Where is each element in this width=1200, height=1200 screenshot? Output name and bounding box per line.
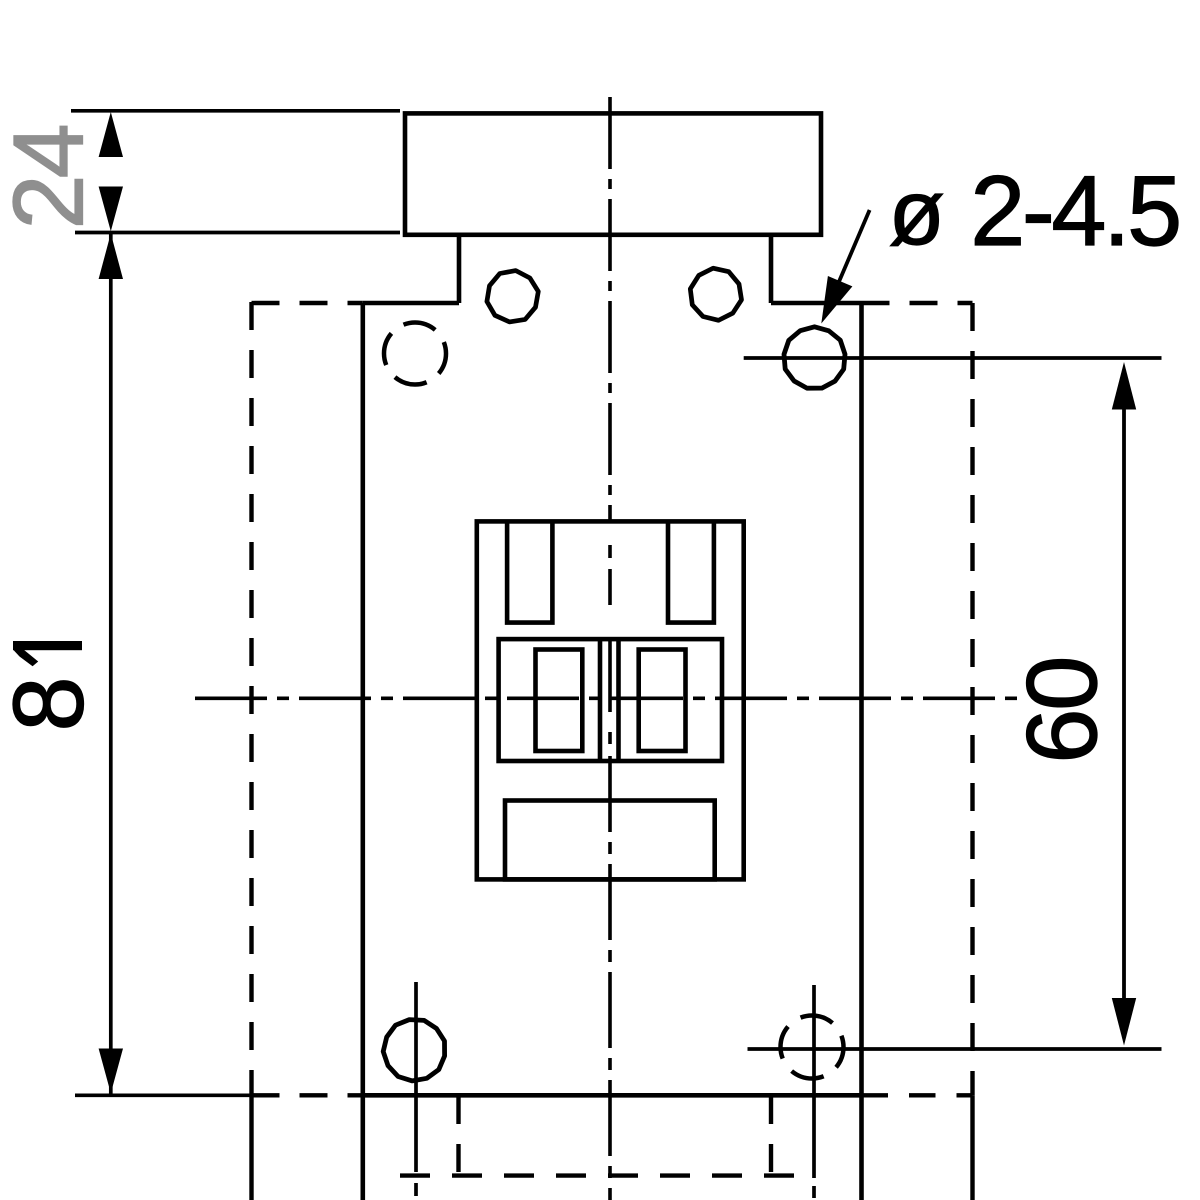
contact block rect bbox=[499, 639, 722, 761]
svg-text:8: 8 bbox=[0, 676, 104, 731]
mounting plate dashed top edge left bbox=[252, 301, 363, 305]
mounting hole bottom-left bbox=[383, 1020, 444, 1081]
leader arrowhead bbox=[821, 276, 852, 324]
mounting plate dashed top edge right bbox=[862, 301, 973, 305]
center line vertical main dash bbox=[608, 569, 612, 605]
center line vertical main dot bbox=[608, 545, 612, 558]
terminal detail outer rect bbox=[477, 521, 744, 879]
dim 81 arrow down bbox=[99, 1049, 123, 1094]
dim 60 arrow down bbox=[1112, 998, 1136, 1046]
terminal slot left bbox=[507, 521, 552, 622]
hidden slot below bottom dashed bbox=[400, 1173, 800, 1177]
dim 81 arrow up bbox=[99, 234, 123, 280]
hidden slot below left dashed bbox=[456, 1096, 460, 1173]
svg-text:ø: ø bbox=[889, 162, 945, 264]
center line bottom-right hole dot bbox=[812, 1186, 816, 1198]
hidden slot below right dashed bbox=[769, 1096, 773, 1173]
svg-text:2-4.5: 2-4.5 bbox=[970, 155, 1182, 266]
lower outline right solid bbox=[970, 1095, 974, 1200]
extension line bottom for dim 81 bbox=[75, 1093, 276, 1097]
svg-text:60: 60 bbox=[1006, 658, 1117, 764]
shoulder right bbox=[771, 301, 862, 306]
center line horizontal bbox=[195, 696, 1020, 700]
hole 2-4.5 top-right bbox=[784, 327, 845, 388]
lower outline left solid bbox=[249, 1095, 253, 1200]
extension line lower for dim 24 bbox=[75, 231, 400, 235]
mounting plate dashed bottom edge left bbox=[252, 1093, 363, 1097]
center line bottom-right hole long dash bbox=[812, 985, 816, 1178]
hidden hole top-left dashed bbox=[384, 323, 446, 385]
mounting hole top-right bbox=[690, 268, 741, 320]
center line vertical main upper bbox=[608, 97, 612, 521]
center line bottom-left hole dot bbox=[414, 1183, 418, 1196]
center line vertical main lower bbox=[608, 756, 612, 1200]
mounting plate dashed bottom edge right bbox=[862, 1093, 973, 1097]
dim 60 extension line top through hole bbox=[744, 356, 1162, 360]
center line vertical main dot mid bbox=[608, 732, 612, 744]
dim 81 line bbox=[109, 234, 113, 1094]
dim 60 line bbox=[1122, 409, 1126, 999]
contact block divider right bbox=[616, 639, 621, 761]
extension line top for dim 24 bbox=[71, 109, 400, 113]
dim 24 arrow down bbox=[99, 187, 123, 232]
body bottom plate edge bbox=[363, 1093, 862, 1098]
center line bottom-left hole long dash bbox=[414, 982, 418, 1172]
neck right bbox=[769, 235, 774, 303]
neck left bbox=[457, 235, 462, 303]
contact block divider left bbox=[598, 639, 603, 761]
mounting plate dashed right edge bbox=[970, 303, 974, 1095]
dim 24 arrow up bbox=[99, 112, 123, 157]
dim 60 arrow up bbox=[1112, 362, 1136, 410]
leader line for hole label bbox=[832, 210, 870, 298]
contact window right bbox=[639, 650, 686, 752]
mounting plate dashed left edge bbox=[249, 302, 253, 1095]
lower recess rect bbox=[505, 801, 715, 880]
terminal slot right bbox=[668, 521, 714, 622]
dim text 81 digit 1 (custom arial-style glyph) bbox=[13, 641, 82, 650]
body side right bbox=[859, 303, 864, 1200]
mounting hole top-left bbox=[487, 271, 538, 322]
center line vertical main solid mid bbox=[608, 639, 612, 712]
shoulder left bbox=[363, 301, 459, 306]
hidden hole bottom-right dashed bbox=[781, 1016, 844, 1079]
svg-text:24: 24 bbox=[0, 125, 104, 229]
body side left bbox=[360, 303, 365, 1200]
housing top box bbox=[405, 113, 821, 234]
dim 60 extension line bottom bbox=[748, 1047, 1162, 1051]
contact window left bbox=[536, 650, 583, 752]
